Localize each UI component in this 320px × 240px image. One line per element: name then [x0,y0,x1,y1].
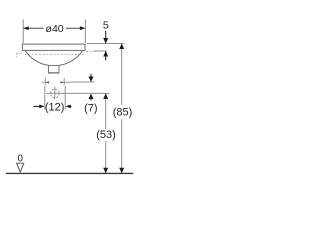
dimension 12 left extension line [44,86,46,110]
crosshair horizontal arm extending right (bottom of dim 7, top of dim 53) [46,92,109,94]
dimension line o40 right segment [66,27,85,29]
arrow right of dimension o40 [80,26,85,30]
extension line right of dimension o40 [84,20,86,44]
dimension 85 top arrow pointing up [119,44,124,50]
arrow left of dimension o40 [24,26,29,30]
dimension 12 right extension line [64,86,66,110]
extension line rim top (for 5 and 85) [87,43,124,45]
svg-text:(7): (7) [84,103,97,115]
extension line left of dimension o40 [22,20,24,44]
dimension 53 vertical line lower part [105,141,107,174]
dimension 85 bottom arrow pointing down [119,168,124,174]
water supply cross left [44,78,46,86]
crosshair vertical arm [54,87,56,100]
dimension 5 upper arrow line pointing down [105,31,107,43]
countertop dashed line left piece [17,52,23,54]
dimension 7 lower arrow pointing up [90,98,92,101]
dimension 5 lower arrow line pointing up [105,51,107,60]
dimension 53 vertical line upper part [105,94,107,130]
svg-text:5: 5 [103,20,109,32]
floor line [6,172,133,174]
dimension line o40 left segment [23,27,43,29]
svg-text:(53): (53) [96,129,116,141]
extension line from right cross (top of dim 7) [71,81,95,83]
extension line rim bottom (for 5) [94,50,107,52]
drain connection crosshair circle [50,89,59,98]
dimension 12 left tail and arrow pointing right [33,105,40,107]
dimension 85 vertical line upper part [121,44,123,105]
drain fitting [49,66,59,73]
svg-text:(12): (12) [45,102,65,114]
dimension 7 upper arrow pointing down [90,74,92,78]
svg-text:ø40: ø40 [46,23,64,35]
level zero triangle [17,163,24,172]
dimension 53 top arrow pointing up [103,93,108,99]
countertop dashed vertical tick [16,53,18,57]
dimension 85 vertical line lower part [121,119,123,173]
water supply cross right [63,78,65,86]
basin rim slab [22,44,85,50]
svg-text:(85): (85) [113,107,133,119]
bowl outline [25,51,82,66]
dimension 12 right tail and arrow pointing left [69,105,71,107]
dimension 53 bottom arrow pointing down [103,168,108,174]
countertop dashed line across bowl [25,53,85,55]
countertop dashed line right piece [86,51,94,53]
